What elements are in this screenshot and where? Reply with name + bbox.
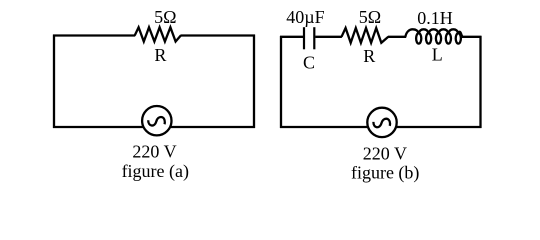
svg-text:5Ω: 5Ω: [359, 7, 381, 27]
ac source V2 (figure b): [367, 108, 396, 137]
capacitor C 40uF plates: [304, 27, 314, 49]
svg-text:C: C: [303, 53, 315, 73]
svg-text:figure (a): figure (a): [122, 161, 189, 182]
inductor L 0.1H coil: [405, 29, 462, 43]
svg-text:L: L: [432, 45, 443, 65]
wire: figure (b) segment inductor to right corner: [462, 36, 482, 38]
wire: figure (a) bottom wire: [53, 126, 255, 128]
svg-text:R: R: [363, 46, 375, 66]
wire: figure (b) left vertical: [280, 36, 282, 128]
svg-text:0.1H: 0.1H: [417, 8, 453, 28]
svg-text:220 V: 220 V: [363, 144, 407, 164]
ac source V1 (figure a): [142, 106, 171, 135]
wire: figure (a) left vertical: [53, 35, 55, 129]
svg-text:5Ω: 5Ω: [154, 7, 176, 27]
wire: figure (b) right vertical: [479, 36, 481, 128]
wire: figure (a) top-left segment: [53, 34, 135, 36]
svg-text:40µF: 40µF: [286, 7, 324, 27]
svg-text:R: R: [154, 45, 166, 65]
svg-text:220 V: 220 V: [132, 142, 176, 162]
wire: figure (a) right vertical: [253, 35, 255, 129]
wire: figure (b) segment capacitor to resistor: [315, 36, 342, 38]
wire: figure (a) top-right segment: [180, 34, 255, 36]
wire: figure (b) top segment from left corner to capacitor: [280, 36, 303, 38]
svg-text:figure (b): figure (b): [351, 163, 419, 184]
wire: figure (b) bottom wire: [280, 126, 482, 128]
resistor R (figure b) 5 ohm zigzag: [342, 28, 389, 43]
resistor R (figure a) 5 ohm zigzag: [135, 27, 181, 41]
wire: figure (b) segment resistor to inductor: [388, 36, 406, 38]
